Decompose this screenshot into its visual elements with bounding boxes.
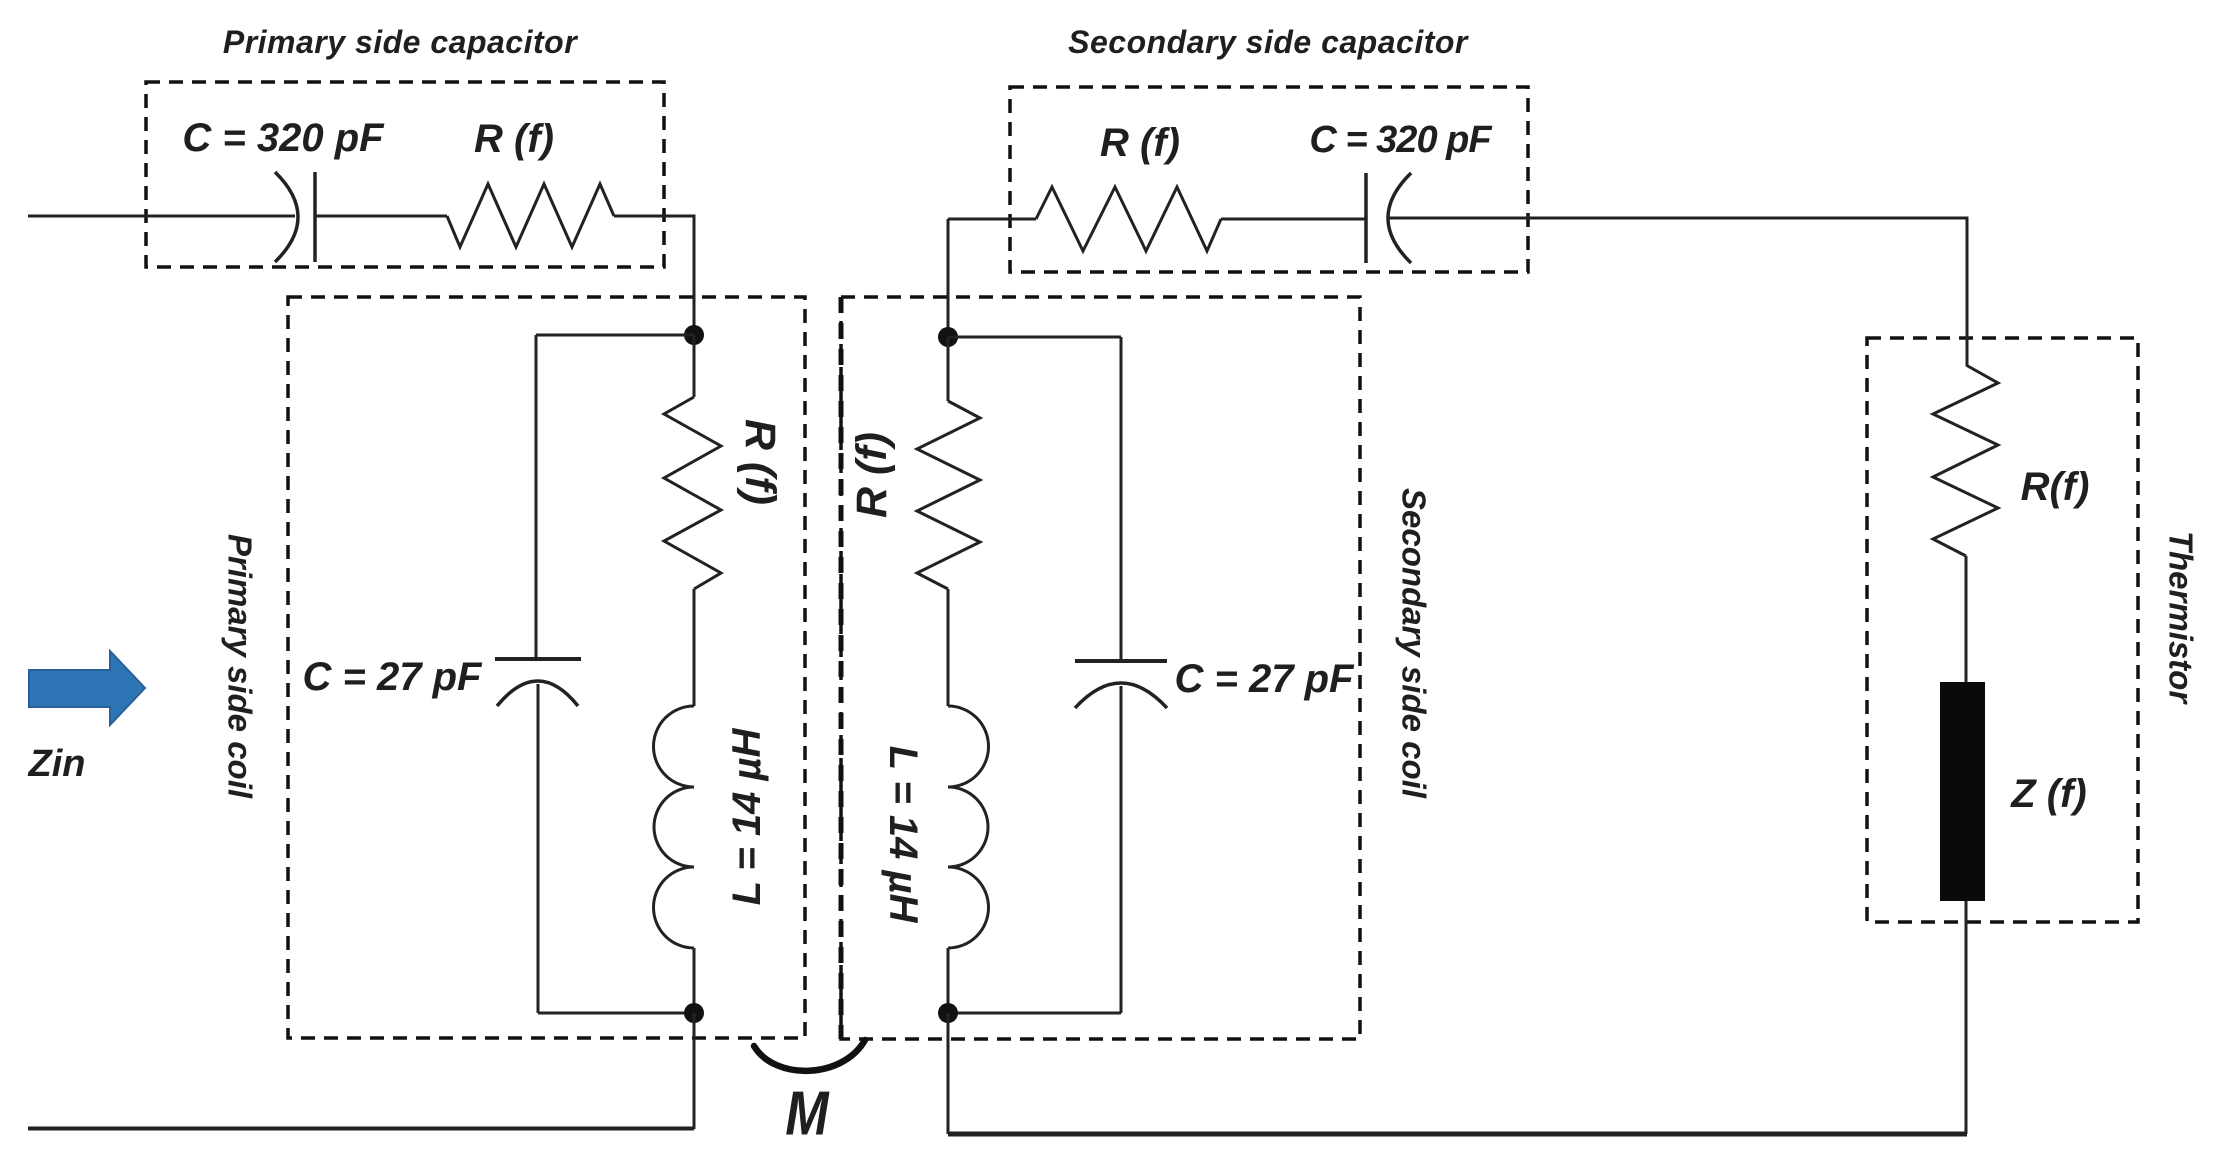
wire: cap to resistor bbox=[315, 215, 447, 218]
secondary coil box thick left edge bbox=[839, 297, 844, 1039]
wire: bottom left rail bbox=[28, 1127, 694, 1131]
capacitor C=27pF primary: top plate bbox=[495, 657, 581, 661]
svg-text:R (f): R (f) bbox=[848, 432, 896, 518]
wire: inductor to bottom node (secondary) bbox=[947, 948, 950, 1013]
capacitor C=27pF secondary: top plate bbox=[1075, 659, 1167, 663]
inductor L=14uH primary (3 bumps left) bbox=[654, 706, 695, 948]
svg-text:C = 27 pF: C = 27 pF bbox=[303, 655, 484, 699]
svg-text:C = 27 pF: C = 27 pF bbox=[1175, 657, 1356, 701]
wire: resistor to inductor bbox=[693, 589, 696, 706]
wire: secondary node to resistor bbox=[947, 337, 950, 401]
svg-text:Secondary side coil: Secondary side coil bbox=[1396, 488, 1433, 799]
inductor L=14uH secondary (3 bumps right) bbox=[948, 706, 989, 948]
secondary capacitor box (dashed) bbox=[1010, 87, 1528, 272]
svg-text:C = 320 pF: C = 320 pF bbox=[182, 116, 385, 160]
wire: Z to bottom bbox=[1965, 901, 1968, 1134]
resistor R(f) secondary-top (zigzag) bbox=[1036, 187, 1221, 251]
wire: cap to thermistor corner bbox=[1388, 218, 1967, 365]
svg-text:Z (f): Z (f) bbox=[2010, 772, 2087, 816]
wire: secondary cap branch bottom bbox=[948, 1012, 1121, 1015]
svg-text:M: M bbox=[785, 1079, 830, 1148]
capacitor C=27pF secondary: curved plate bbox=[1075, 683, 1167, 708]
svg-text:R (f): R (f) bbox=[1100, 121, 1180, 165]
svg-text:R(f): R(f) bbox=[2021, 465, 2090, 509]
resistor R(f) thermistor (vertical zigzag) bbox=[1933, 365, 1998, 556]
svg-text:C = 320 pF: C = 320 pF bbox=[1309, 119, 1493, 161]
resistor R(f) secondary-coil (vertical zigzag) bbox=[917, 401, 980, 589]
wire: below secondary cap bbox=[1120, 686, 1123, 1013]
wire: left input bbox=[28, 215, 295, 218]
capacitor C=320pF primary: curved plate bbox=[275, 172, 298, 262]
wire: secondary corner bbox=[948, 219, 1036, 337]
resistor R(f) primary-top (zigzag) bbox=[447, 184, 614, 247]
node: primary bottom junction bbox=[684, 1003, 704, 1023]
svg-text:Thermistor: Thermistor bbox=[2163, 531, 2200, 706]
wire: resistor to inductor (secondary) bbox=[947, 589, 950, 706]
wire: below cap bbox=[537, 684, 540, 1013]
secondary coil box (dashed) bbox=[841, 297, 1360, 1039]
wire: resistor to Z bbox=[1965, 556, 1968, 682]
mutual coupling arc M bbox=[754, 1040, 865, 1071]
capacitor C=27pF primary: curved plate bbox=[497, 681, 578, 706]
svg-text:Zin: Zin bbox=[28, 743, 86, 785]
impedance Z(f) block bbox=[1940, 682, 1985, 901]
node: secondary top junction bbox=[938, 327, 958, 347]
capacitor C=320pF primary: straight plate bbox=[313, 172, 317, 262]
svg-text:R (f): R (f) bbox=[736, 419, 784, 505]
wire: node down bbox=[693, 1013, 696, 1129]
resistor R(f) primary-coil (vertical zigzag) bbox=[664, 397, 721, 589]
wire: secondary cap branch down bbox=[1120, 337, 1123, 659]
primary capacitor box (dashed) bbox=[146, 82, 664, 267]
svg-text:L = 14 µH: L = 14 µH bbox=[725, 727, 769, 905]
capacitor C=320pF secondary: straight plate bbox=[1364, 173, 1368, 263]
wire: cap branch down bbox=[535, 335, 538, 657]
svg-text:Secondary side capacitor: Secondary side capacitor bbox=[1068, 24, 1469, 60]
wire: secondary node down bbox=[947, 1013, 950, 1134]
capacitor C=320pF secondary: curved plate bbox=[1388, 173, 1411, 263]
wire: cap branch top bbox=[536, 334, 694, 337]
node: primary top junction bbox=[684, 325, 704, 345]
node: secondary bottom junction bbox=[938, 1003, 958, 1023]
svg-text:Primary side capacitor: Primary side capacitor bbox=[223, 24, 578, 60]
wire: bottom right rail bbox=[948, 1132, 1967, 1137]
svg-text:Primary side coil: Primary side coil bbox=[222, 534, 259, 799]
svg-text:R (f): R (f) bbox=[474, 117, 554, 161]
wire: inductor to bottom node bbox=[693, 948, 696, 1013]
Zin arrow bbox=[29, 651, 145, 725]
wire: node to resistor bbox=[693, 335, 696, 397]
svg-text:L = 14 µH: L = 14 µH bbox=[881, 746, 925, 924]
wire: secondary cap branch top bbox=[948, 336, 1121, 339]
thermistor box (dashed) bbox=[1867, 338, 2138, 922]
wire: resistor to cap bbox=[1221, 218, 1366, 221]
primary coil box (dashed) bbox=[288, 297, 805, 1038]
wire: cap branch bottom bbox=[538, 1012, 694, 1015]
wire: resistor to corner, down to node bbox=[614, 216, 694, 335]
